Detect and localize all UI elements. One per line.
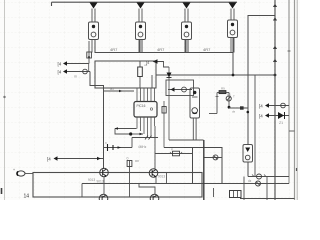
diode D3 — [183, 3, 191, 9]
left frame border line — [3, 0, 5, 200]
wire (Q2 collector from IC pin) — [154, 126, 156, 169]
svg-text:14: 14 — [24, 194, 30, 200]
wire (Q4 top lead) — [139, 184, 155, 195]
resistor label R12 — [157, 47, 165, 52]
connector arrow P5 with diode D6 — [259, 112, 289, 125]
diode D7 — [167, 67, 172, 140]
wire (Q1 emitter down) — [103, 177, 105, 195]
svg-text:PIC16: PIC16 — [137, 104, 146, 108]
connector arrow P2 — [58, 69, 91, 78]
wire (bottom right rail) — [240, 198, 295, 200]
right frame border line 2 — [289, 0, 297, 200]
wire (U1 top pins) — [137, 88, 155, 102]
connector arrow P1 — [58, 61, 89, 66]
wire (right vertical bus x275) — [274, 0, 276, 200]
resistor R4 on rail — [155, 148, 193, 156]
wire (mid horizontal bus) — [156, 74, 275, 76]
node junction J1 — [129, 132, 132, 135]
resistor R5 — [127, 157, 132, 198]
module box B1 — [95, 61, 156, 88]
transistor Q4 — [150, 194, 159, 203]
svg-text:[4: [4 — [47, 157, 51, 162]
wire (K2 bottom leads) — [139, 40, 142, 53]
label 14 — [24, 194, 30, 200]
svg-text:T: T — [233, 95, 235, 99]
lamp L3 — [248, 179, 261, 186]
wire (top-right corner wire) — [247, 16, 276, 145]
svg-text:0: 0 — [127, 157, 129, 161]
right frame border line 1 — [288, 0, 290, 184]
transistor Q3 — [99, 194, 108, 203]
svg-text:9013: 9013 — [158, 175, 165, 179]
svg-text:4R7: 4R7 — [203, 47, 211, 52]
wire (bottom bus y183.5) — [82, 178, 289, 197]
driver box B2 — [166, 80, 194, 96]
wire (vertical node branch) — [88, 41, 90, 64]
resistor R2 — [217, 87, 229, 94]
wire (row y137.5) — [132, 136, 158, 140]
wire (h line y140) — [169, 139, 204, 141]
wire (D2 to K2 leads) — [139, 9, 142, 23]
wire (U1 bottom pins) — [137, 117, 155, 138]
svg-text:R9: R9 — [221, 87, 225, 91]
wire (K5 bottom leads) — [193, 118, 196, 140]
relay contact K2 — [136, 22, 146, 40]
wire (Q2 emitter down) — [156, 173, 167, 184]
svg-text:dz: dz — [248, 179, 252, 183]
svg-text:[4: [4 — [259, 114, 263, 119]
resistor R1 inside B1 — [138, 61, 148, 88]
svg-text:m: m — [74, 75, 77, 79]
fuse F1 — [87, 52, 92, 58]
wire (K6 to y176.5 rail) — [248, 162, 289, 177]
svg-text:R8: R8 — [135, 159, 139, 163]
wire (inner thick edge x209) — [203, 140, 205, 200]
tick mark right border — [296, 168, 298, 171]
transistor Q1 — [97, 168, 109, 183]
terminal block TB1 — [230, 191, 242, 198]
diode D5 inside B2 — [168, 87, 192, 92]
relay contact K1 — [89, 22, 99, 40]
resistor label R13 — [203, 47, 211, 52]
wire (K3 bottom leads) — [185, 40, 188, 53]
svg-text:4R7: 4R7 — [110, 47, 118, 52]
svg-text:+: + — [13, 168, 15, 172]
tick mark left border — [1, 188, 3, 194]
wire (K4 bottom leads) — [231, 38, 234, 53]
lamp L2 — [252, 174, 266, 179]
label near K4 — [227, 93, 231, 97]
svg-text:[4: [4 — [58, 70, 62, 75]
transistor Q2 — [149, 169, 165, 179]
wire (vertical x255) — [254, 75, 256, 177]
svg-text:9013: 9013 — [97, 180, 104, 184]
svg-text:P: P — [171, 148, 173, 152]
svg-text:ds: ds — [232, 110, 236, 114]
wire (below U1 row 1) — [115, 127, 137, 134]
relay contact K4 — [228, 20, 238, 38]
transistor Q5 — [226, 93, 235, 108]
wire (vertical x132) — [131, 138, 133, 148]
wire (vertical x217) — [216, 93, 219, 114]
diode D1 — [90, 3, 98, 9]
wire (lead into box B1) — [151, 75, 153, 88]
connector arrow P4 — [259, 103, 289, 108]
lamp L1 — [204, 155, 222, 160]
module box B4 — [164, 148, 222, 184]
connector arrow P6 — [47, 156, 139, 163]
wire (junction x89) — [88, 64, 90, 72]
wire (lamp L1 drop) — [213, 188, 215, 197]
power rail arrows — [273, 4, 291, 77]
svg-text:[4: [4 — [58, 62, 62, 67]
wire (staircase to lower bus) — [90, 72, 104, 170]
svg-text:Z1: Z1 — [279, 121, 283, 125]
connector arrow P3 — [146, 59, 169, 67]
top bus wire — [52, 2, 238, 6]
svg-text:[4: [4 — [259, 104, 263, 109]
module box B3 — [33, 173, 202, 198]
label text under IC — [138, 145, 147, 149]
wire (D3 to K3 leads) — [185, 9, 188, 23]
relay contact K3 — [182, 22, 192, 40]
node junction J2 — [228, 106, 231, 109]
wire (h line y108) — [229, 106, 248, 113]
diode D2 — [137, 3, 145, 9]
svg-text:L1: L1 — [227, 93, 231, 97]
battery terminal BT1 — [13, 168, 33, 176]
wire (D4 to K4 leads) — [231, 9, 234, 21]
svg-text:4MHz: 4MHz — [138, 145, 147, 149]
diode D4 — [229, 3, 237, 9]
resistor R6 — [162, 101, 166, 148]
wire (vertical x267 bottom) — [266, 177, 268, 201]
wire (K1 bottom leads) — [92, 40, 95, 53]
bus wire joining branch bottoms — [95, 38, 233, 53]
crystal Y1 — [104, 141, 133, 151]
IC U1 — [134, 102, 157, 118]
wire (arrow to right) — [132, 133, 143, 135]
svg-text:4R7: 4R7 — [157, 47, 165, 52]
svg-text:9013: 9013 — [88, 178, 95, 182]
wire (branch4 to mid bus) — [232, 53, 235, 77]
relay contact K5 — [190, 88, 200, 118]
svg-text:x: x — [105, 141, 107, 145]
relay contact K6 — [243, 145, 253, 163]
wire (vertical x244 bottom) — [243, 177, 245, 201]
resistor label R11 — [110, 47, 118, 52]
wire (h line y113.5) — [209, 113, 217, 115]
wire (D1 to K1 leads) — [92, 9, 95, 23]
wire (horizontal with arrows under box) — [104, 87, 135, 92]
